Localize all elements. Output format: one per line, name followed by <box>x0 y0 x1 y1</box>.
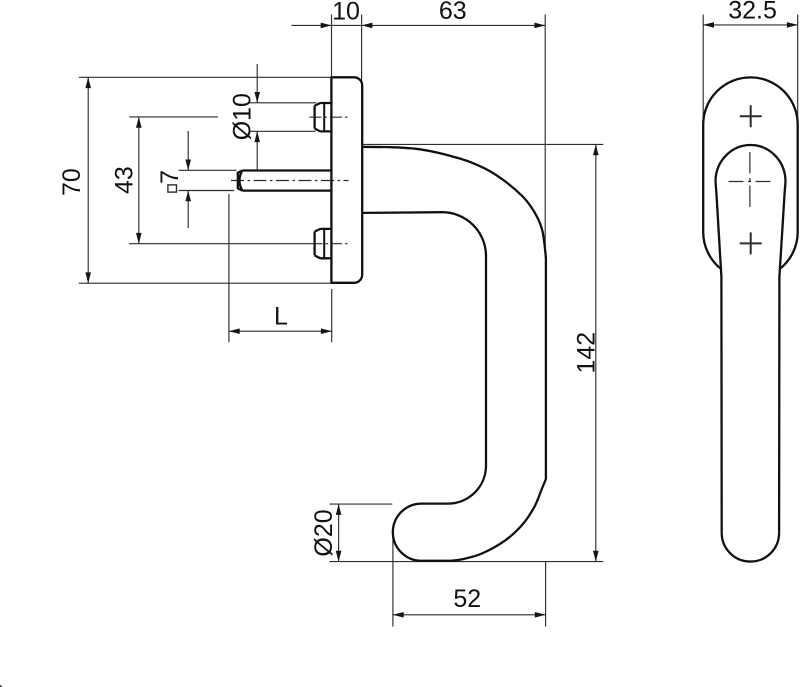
ext line 43 top <box>129 116 218 118</box>
ext line dia10 top <box>249 102 317 104</box>
svg-text:70: 70 <box>58 168 86 196</box>
ext line dia10 bottom <box>249 130 316 132</box>
svg-text:10: 10 <box>332 0 360 25</box>
corner artifact bottom left <box>0 685 3 687</box>
arrow sq7 top outside <box>185 160 191 171</box>
bottom screw <box>315 229 332 258</box>
svg-text:32.5: 32.5 <box>728 0 777 24</box>
dim line sq7 lower <box>187 191 189 229</box>
handle front view (neck arch and grip) <box>716 145 786 182</box>
ext line 32.5 right <box>797 15 799 122</box>
arrow 52 right <box>535 612 546 618</box>
ext line L left <box>228 194 230 342</box>
arrow 70 top <box>85 77 91 88</box>
svg-text:63: 63 <box>439 0 467 25</box>
svg-text:142: 142 <box>572 332 600 374</box>
ext line 70 bottom <box>79 282 331 284</box>
dim line 43 <box>138 117 140 244</box>
arrow 142 top <box>593 144 599 155</box>
arrow 63 right <box>534 23 545 29</box>
plate (rosette side view) <box>331 77 362 282</box>
svg-text:52: 52 <box>453 585 481 613</box>
handle outline side view <box>362 147 546 561</box>
arrow 10/63 at right of plate <box>362 23 373 29</box>
center line bottom screw axis <box>312 243 349 245</box>
svg-text:7: 7 <box>156 170 184 184</box>
arrow 43 top <box>136 117 142 128</box>
arrow 142 bottom <box>593 551 599 562</box>
svg-text:Ø20: Ø20 <box>310 509 338 556</box>
dim line 32.5 <box>703 24 798 26</box>
ext line 70 top <box>79 76 332 78</box>
arrow L left <box>229 328 240 334</box>
arrow 43 bottom <box>136 233 142 244</box>
ext line dia20 top <box>330 503 393 505</box>
arrow L right <box>321 328 332 334</box>
center line top screw axis <box>310 116 349 118</box>
ext line sq7 top <box>179 169 237 171</box>
arrow dia10 bottom outside <box>254 131 260 142</box>
dim line dia10 lower leader <box>256 131 258 170</box>
rosette front view <box>703 77 798 232</box>
ext line 43 bottom <box>129 243 311 245</box>
svg-text:L: L <box>274 302 288 330</box>
ext line 142 top <box>362 143 603 145</box>
arrow 32.5 left <box>703 22 714 28</box>
arrow dia10 top outside <box>254 92 260 103</box>
ext line 63 right <box>544 15 546 259</box>
arrow dia20 bottom <box>336 551 342 562</box>
top screw <box>315 103 332 131</box>
ext line L right <box>331 289 333 342</box>
center line spindle axis <box>231 180 349 182</box>
screw position mark bottom <box>740 232 762 254</box>
rosette bottom arc right <box>779 232 798 270</box>
square spindle <box>238 171 332 191</box>
dim line 142 <box>595 144 597 561</box>
dim line 70 <box>87 77 89 283</box>
square symbol of 7 <box>168 185 177 192</box>
ext line 10 right / 63 left <box>361 15 363 87</box>
ext line 32.5 left <box>702 15 704 122</box>
ext line 10 left <box>331 15 333 77</box>
rosette bottom arc left <box>703 232 722 270</box>
arrow dia20 top <box>336 504 342 515</box>
svg-text:Ø10: Ø10 <box>228 93 256 140</box>
dim line dia10 upper <box>256 64 258 103</box>
center line front view vertical <box>749 152 751 212</box>
center line front view horizontal <box>729 181 772 183</box>
ext line dia20 bottom / 142 bottom <box>330 561 604 563</box>
svg-text:43: 43 <box>111 166 139 194</box>
dim line L <box>229 330 332 332</box>
arrow 70 bottom <box>85 272 91 283</box>
dim line 52 <box>393 614 546 616</box>
grip bottom cap front view <box>722 533 779 562</box>
arrow 52 left <box>393 612 404 618</box>
arrow sq7 bottom outside <box>185 191 191 202</box>
arrow 32.5 right <box>787 22 798 28</box>
dim line 10-63 horizontal <box>292 24 546 26</box>
dim line sq7 upper <box>187 131 189 170</box>
ext line 52 left <box>392 533 394 627</box>
ext line sq7 bottom <box>179 190 235 192</box>
screw position mark top <box>740 105 762 127</box>
ext line 52 right <box>545 561 547 627</box>
arrow 10 left outside <box>321 23 332 29</box>
dim line dia20 <box>338 504 340 561</box>
